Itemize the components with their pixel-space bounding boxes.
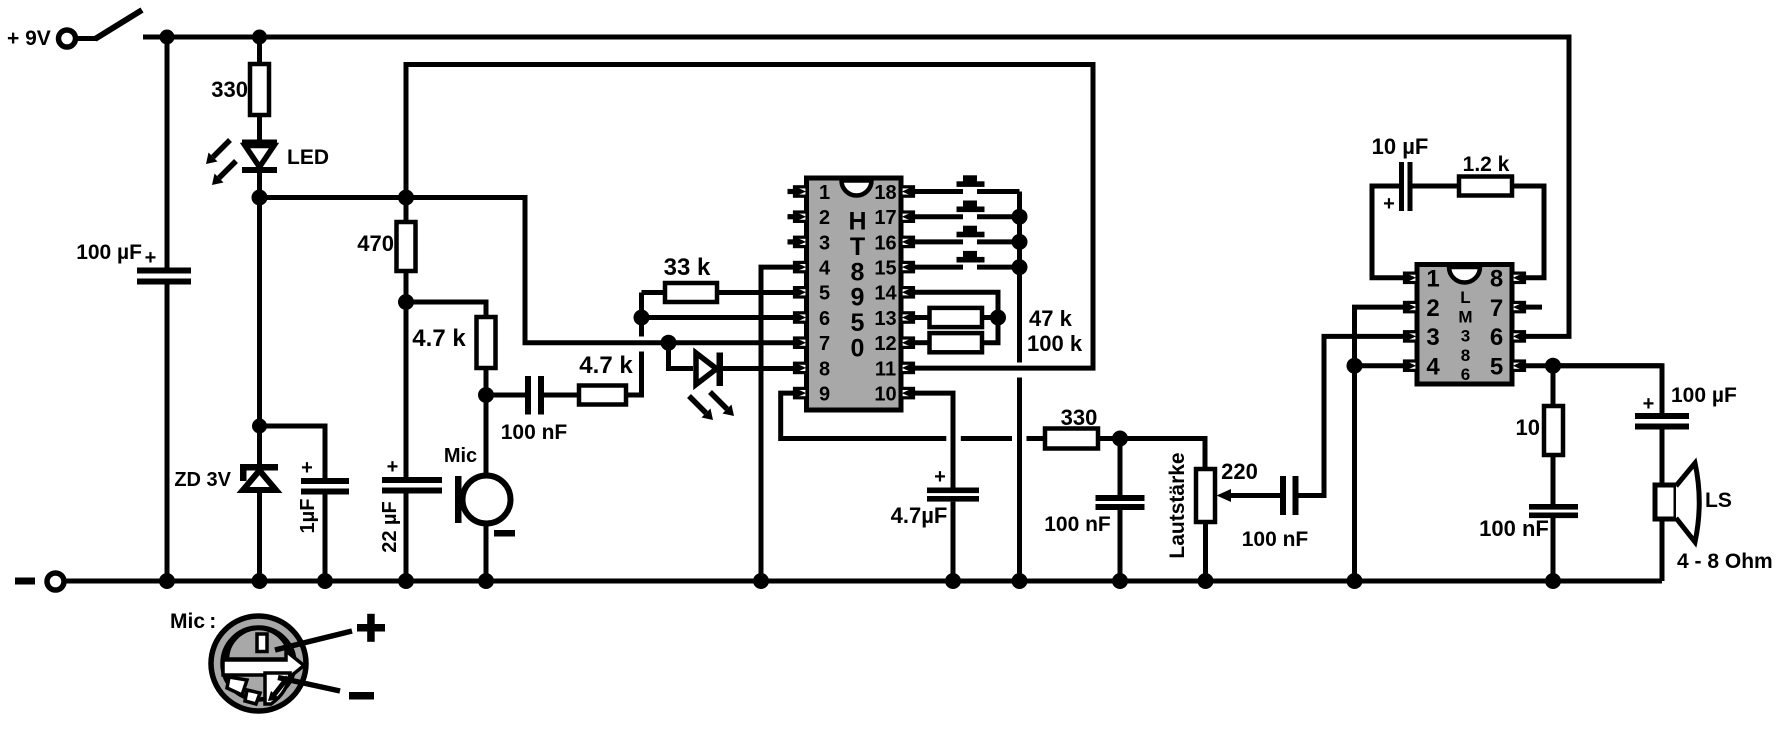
svg-text:7: 7 bbox=[1490, 295, 1503, 322]
node zener / 1uF bbox=[252, 419, 267, 434]
svg-text:22 µF: 22 µF bbox=[379, 501, 401, 553]
capacitor 100nF (filter) bbox=[1044, 439, 1144, 582]
svg-text:+: + bbox=[301, 457, 313, 479]
capacitor 4.7uF bbox=[891, 466, 979, 528]
svg-text:+: + bbox=[145, 247, 157, 269]
node button bus bbox=[1012, 209, 1028, 225]
wire pin 5 output bbox=[1526, 363, 1662, 368]
IC U1 HT8950 bbox=[788, 178, 914, 410]
resistor 470 bbox=[357, 198, 415, 303]
wire mic node to 100nF bbox=[486, 393, 525, 398]
resistor 10 (zobel) bbox=[1516, 366, 1563, 504]
svg-text:470: 470 bbox=[357, 231, 394, 256]
op-amp U2 LM386 bbox=[1405, 265, 1525, 385]
svg-text:+: + bbox=[934, 466, 946, 488]
capacitor 1uF bbox=[297, 457, 349, 533]
resistor 4.7k (vertical) bbox=[412, 317, 495, 476]
wire TX LED to pin 8 bbox=[723, 366, 795, 371]
svg-text:14: 14 bbox=[874, 283, 897, 305]
svg-text:4.7 k: 4.7 k bbox=[412, 325, 466, 352]
svg-text:100 µF: 100 µF bbox=[1671, 384, 1737, 407]
svg-text:LED: LED bbox=[287, 146, 329, 169]
svg-text:100 k: 100 k bbox=[1027, 331, 1083, 356]
wire 100uF to speaker bbox=[1660, 430, 1665, 486]
wire pin 4 to ground bbox=[761, 267, 795, 581]
svg-text:Mic: Mic bbox=[444, 445, 477, 467]
svg-text:Lautstärke: Lautstärke bbox=[1166, 452, 1189, 558]
microphone Mic bbox=[444, 445, 515, 537]
svg-text:L: L bbox=[1460, 288, 1470, 307]
wire pin 9 after second crossover bbox=[1027, 436, 1046, 441]
svg-text:13: 13 bbox=[874, 308, 896, 330]
node pin 7 / TX LED bbox=[661, 335, 677, 351]
node rail 1uF bbox=[317, 573, 333, 589]
wire pin 10 to 4.7uF bbox=[914, 393, 954, 487]
wire 100nF to 4.7k bbox=[544, 393, 579, 398]
capacitor 100nF (mic) bbox=[501, 376, 568, 444]
svg-text:330: 330 bbox=[211, 77, 248, 102]
node rail LM386 gnd bbox=[1347, 573, 1363, 589]
push button switch pin 17 bbox=[914, 201, 1020, 217]
wire node to 1uF bbox=[260, 426, 326, 478]
svg-text:100 nF: 100 nF bbox=[1044, 513, 1111, 536]
plus label bbox=[357, 614, 385, 642]
resistor 330 (top left) bbox=[211, 64, 269, 115]
capacitor 22uF bbox=[379, 456, 442, 553]
svg-text:6: 6 bbox=[1490, 324, 1503, 351]
svg-text:6: 6 bbox=[819, 308, 830, 330]
svg-text:100 nF: 100 nF bbox=[1479, 516, 1549, 541]
svg-text:4.7µF: 4.7µF bbox=[891, 503, 948, 528]
svg-text:1µF: 1µF bbox=[297, 499, 319, 534]
svg-text:18: 18 bbox=[874, 182, 896, 204]
push button switch pin 15 bbox=[914, 251, 1020, 267]
node rail mic bbox=[478, 573, 494, 589]
svg-text:T: T bbox=[850, 233, 865, 261]
wire 1uF to ground rail bbox=[323, 495, 328, 582]
wire zobel to ground bbox=[1551, 518, 1556, 581]
node mic coupling bbox=[478, 387, 494, 403]
svg-text:9: 9 bbox=[819, 384, 830, 406]
node LED cathode bbox=[252, 190, 268, 206]
svg-text:+ 9V: + 9V bbox=[7, 27, 51, 50]
wire 100uF branch bbox=[165, 37, 170, 268]
svg-text:10 µF: 10 µF bbox=[1372, 134, 1429, 159]
wire 33k to pin 5 bbox=[717, 290, 795, 295]
capacitor 100uF (left) bbox=[76, 241, 191, 285]
svg-text:10: 10 bbox=[874, 384, 896, 406]
push button switch pin 16 bbox=[914, 226, 1020, 242]
node rail 100uF bbox=[159, 573, 175, 589]
node pin 5 output bbox=[1545, 358, 1561, 374]
mic DIN connector bbox=[211, 616, 306, 711]
battery terminal +9V bbox=[7, 27, 76, 50]
svg-text:7: 7 bbox=[819, 333, 830, 355]
wire 1.2k to pin 8 bbox=[1512, 186, 1544, 278]
wire feedback loop to pin 11 bbox=[406, 65, 1093, 369]
node rail pot bbox=[1198, 573, 1214, 589]
wire pin 9 to 330 bbox=[781, 393, 947, 438]
svg-text:1.2 k: 1.2 k bbox=[1463, 153, 1510, 176]
minus label bbox=[349, 692, 374, 700]
svg-text:47 k: 47 k bbox=[1029, 306, 1073, 331]
node rail 100nF filter bbox=[1112, 573, 1128, 589]
svg-text:220: 220 bbox=[1221, 459, 1258, 484]
resistor 330 (pin 9) bbox=[1045, 405, 1098, 449]
capacitor 10uF bbox=[1372, 134, 1429, 215]
wire pin 6 bbox=[642, 315, 796, 320]
svg-text:12: 12 bbox=[874, 333, 896, 355]
svg-text:3: 3 bbox=[1461, 327, 1470, 346]
LED D1 bbox=[206, 140, 329, 186]
wire 330 to volume pot bbox=[1098, 439, 1205, 470]
svg-text:5: 5 bbox=[851, 309, 865, 337]
wire pointer to plus bbox=[275, 631, 352, 650]
svg-text:4 - 8 Ohm: 4 - 8 Ohm bbox=[1677, 550, 1773, 573]
wire pin 14 to 47k/100k bbox=[914, 292, 999, 317]
node rail button bus bbox=[1012, 573, 1028, 589]
wire 10uF to 1.2k bbox=[1413, 184, 1460, 189]
resistor 4.7k (horizontal) bbox=[579, 352, 633, 405]
node rail zener bbox=[252, 573, 268, 589]
svg-text:8: 8 bbox=[851, 258, 865, 286]
capacitor 100uF (output) bbox=[1635, 384, 1737, 430]
wire 4.7k to pin6 node bbox=[626, 352, 642, 396]
node rail 4.7uF bbox=[945, 573, 961, 589]
wire button bus bbox=[1017, 192, 1022, 363]
wire pin 4 to ground bbox=[1355, 363, 1407, 368]
resistor 1.2k bbox=[1459, 153, 1512, 196]
wire 330 branch bbox=[257, 37, 262, 64]
svg-text:M: M bbox=[1458, 307, 1472, 326]
svg-text:16: 16 bbox=[874, 232, 896, 254]
svg-text:100 nF: 100 nF bbox=[1242, 528, 1309, 551]
svg-text:4: 4 bbox=[1426, 354, 1440, 381]
node button bus bbox=[1012, 259, 1028, 275]
wire pin 1 to 10uF bbox=[1372, 186, 1406, 278]
node pin 6 input bbox=[634, 310, 650, 326]
capacitor 100nF (wiper) bbox=[1242, 476, 1309, 551]
node 470 top bbox=[398, 190, 414, 206]
LED D2 (TX) bbox=[689, 353, 734, 421]
svg-text:0: 0 bbox=[851, 334, 865, 362]
svg-text:2: 2 bbox=[819, 207, 830, 229]
wire +9V top rail bbox=[143, 37, 1569, 336]
svg-text:100 nF: 100 nF bbox=[501, 421, 568, 444]
resistor 33k bbox=[642, 254, 718, 302]
wire button bus below crossover bbox=[1017, 378, 1022, 582]
wire 4.7uF to ground rail bbox=[951, 502, 956, 581]
wire pin 2 to ground bbox=[1355, 307, 1407, 581]
wire pointer to minus bbox=[278, 678, 340, 692]
wire 330 to LED bbox=[257, 115, 262, 140]
wire pin 7 from LED node bbox=[406, 198, 795, 343]
node button bus bbox=[1012, 234, 1028, 250]
svg-text:100 µF: 100 µF bbox=[76, 241, 142, 264]
node rail pin 4 bbox=[753, 573, 769, 589]
stub pin 7 bbox=[1526, 305, 1542, 310]
ground terminal minus bbox=[15, 573, 64, 590]
svg-text:+: + bbox=[1643, 393, 1655, 415]
node rail zobel bbox=[1545, 573, 1561, 589]
svg-text:33 k: 33 k bbox=[664, 254, 711, 281]
svg-text:4: 4 bbox=[819, 258, 831, 280]
wire wiper to LM386 pin 3 bbox=[1299, 336, 1407, 495]
svg-text:15: 15 bbox=[874, 258, 896, 280]
wire 470 node to 22uF bbox=[404, 302, 409, 477]
node top rail / 100uF branch bbox=[160, 30, 175, 45]
wire 100uF to ground rail bbox=[165, 285, 170, 582]
svg-text:Mic :: Mic : bbox=[170, 610, 216, 633]
svg-text:2: 2 bbox=[1426, 295, 1439, 322]
wire speaker to ground rail bbox=[1660, 519, 1665, 581]
svg-text:3: 3 bbox=[1426, 324, 1439, 351]
svg-text:10: 10 bbox=[1516, 415, 1540, 440]
node 470 bottom bbox=[398, 294, 414, 310]
wire LED node to 470 node bbox=[260, 195, 407, 200]
svg-text:5: 5 bbox=[819, 283, 830, 305]
wire mic to ground rail bbox=[484, 522, 489, 581]
wire TX LED branch bbox=[669, 343, 694, 369]
svg-text:8: 8 bbox=[819, 358, 830, 380]
resistor 100k bbox=[914, 318, 1083, 357]
svg-text:3: 3 bbox=[819, 232, 830, 254]
resistor 47k bbox=[914, 306, 1073, 331]
svg-text:9: 9 bbox=[851, 284, 865, 312]
wire ground rail bbox=[65, 579, 1663, 584]
wire LED cathode down bbox=[257, 173, 262, 426]
svg-text:17: 17 bbox=[874, 207, 896, 229]
wire 22uF to ground rail bbox=[404, 494, 409, 582]
svg-text:6: 6 bbox=[1461, 365, 1470, 384]
node 47k/100k/pin14 bbox=[990, 310, 1006, 326]
zener diode ZD 3V bbox=[174, 426, 278, 581]
potentiometer Lautstaerke bbox=[1166, 452, 1280, 581]
svg-text:H: H bbox=[848, 208, 866, 236]
svg-text:8: 8 bbox=[1461, 346, 1470, 365]
wire pin 9 continued after crossover bbox=[961, 436, 1012, 441]
node top rail / 330 branch bbox=[252, 30, 267, 45]
wire zener branch from LED node bbox=[257, 198, 262, 427]
wire 470 node to 4.7k bbox=[406, 302, 486, 317]
svg-text:ZD 3V: ZD 3V bbox=[174, 469, 231, 491]
switch S1 bbox=[76, 10, 142, 39]
node rail 22uF bbox=[398, 573, 414, 589]
svg-text:1: 1 bbox=[1426, 266, 1439, 293]
speaker LS bbox=[1655, 463, 1773, 573]
svg-text:1: 1 bbox=[819, 182, 830, 204]
wire output to 100uF bbox=[1553, 366, 1662, 413]
push button switch pin 18 bbox=[914, 175, 1020, 191]
wire pin6 node upper segment bbox=[639, 293, 644, 337]
node pin2/pin4 ground bbox=[1347, 358, 1363, 374]
capacitor 100nF (zobel) bbox=[1479, 504, 1578, 541]
svg-text:4.7 k: 4.7 k bbox=[579, 352, 633, 379]
svg-text:8: 8 bbox=[1490, 266, 1503, 293]
svg-text:+: + bbox=[1383, 193, 1395, 215]
svg-text:LS: LS bbox=[1705, 489, 1732, 512]
svg-text:11: 11 bbox=[875, 358, 896, 380]
svg-text:5: 5 bbox=[1490, 354, 1503, 381]
node 100nF filter bbox=[1112, 431, 1128, 447]
svg-text:+: + bbox=[387, 456, 399, 478]
